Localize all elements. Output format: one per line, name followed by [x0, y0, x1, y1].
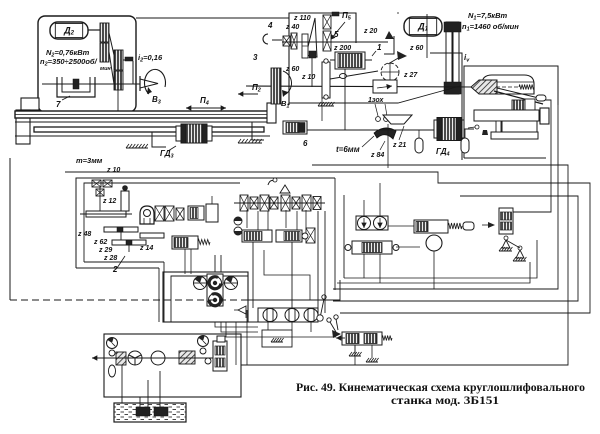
row shafts vertical — [246, 210, 248, 228]
feed shaft horizontal — [307, 129, 437, 131]
gear z14 bar — [140, 233, 164, 238]
cone pulley — [306, 18, 317, 57]
wheel head frame — [464, 66, 558, 158]
valve drops to pumpbox — [184, 249, 186, 274]
main shaft I — [282, 41, 388, 43]
gear z62 bar — [104, 227, 138, 232]
wire from pumpbox right — [248, 280, 340, 300]
wire W4b — [333, 105, 558, 289]
machine outline left — [9, 158, 11, 300]
spindle shaft to wheel — [246, 86, 474, 87]
small gears z110/z40 — [283, 36, 290, 46]
vertical shaft down from speedbox — [344, 69, 346, 130]
wire pulley to table — [117, 90, 119, 111]
svg-text:2: 2 — [112, 265, 118, 274]
hatched valve with spring — [172, 236, 198, 249]
svg-text:n1=1460 об/мин: n1=1460 об/мин — [462, 22, 519, 33]
svg-text:z 12: z 12 — [102, 198, 116, 205]
frame feed gearbox outer — [76, 178, 335, 268]
svg-text:4: 4 — [267, 21, 273, 30]
verticals to bottom bus — [246, 310, 248, 365]
table support bracket left — [152, 132, 166, 147]
motor D1 — [404, 17, 442, 36]
rotation arrow B3 — [144, 69, 165, 94]
small flask — [482, 130, 488, 135]
pilot link wires — [388, 225, 414, 227]
svg-text:z 62: z 62 — [93, 239, 107, 246]
lever with ball — [320, 299, 324, 318]
svg-text:z 20: z 20 — [363, 28, 377, 35]
table rail line — [15, 121, 272, 123]
heat exchanger hatched — [179, 351, 195, 364]
tank with oil — [114, 403, 186, 422]
dark fleck P5 — [332, 12, 339, 16]
svg-text:z 200: z 200 — [333, 45, 351, 52]
drain box below — [262, 330, 292, 347]
svg-text:3: 3 — [253, 53, 258, 62]
circle element — [151, 351, 165, 365]
svg-text:z 27: z 27 — [403, 72, 418, 79]
pump circle 3lobe — [128, 351, 142, 365]
svg-text:мин: мин — [100, 66, 111, 72]
svg-text:z 110: z 110 — [293, 15, 311, 22]
small circle valve — [205, 358, 211, 364]
svg-text:5: 5 — [334, 30, 339, 39]
pipe line main — [108, 357, 213, 359]
wires valve cluster to cylinders — [264, 250, 310, 300]
svg-text:z 60: z 60 — [285, 66, 299, 73]
svg-text:Рис. 49. Кинематическая схема: Рис. 49. Кинематическая схема круглошлиф… — [296, 382, 585, 394]
filter-valve assembly — [213, 341, 227, 371]
worm z84 — [374, 128, 396, 139]
pilot levers valve — [327, 318, 331, 322]
base plates — [474, 110, 539, 121]
relief oval — [109, 365, 116, 377]
cylinder barrels row frame — [258, 308, 318, 322]
frame pump box — [163, 272, 248, 322]
hydraulic cylinder GD3 — [176, 126, 212, 141]
label GD3 — [168, 146, 176, 151]
wire big loop W1 — [241, 165, 568, 365]
cross slide block — [512, 100, 525, 110]
valve bottom drain to bus — [354, 345, 356, 365]
clutch roller 1 — [335, 52, 365, 69]
ratchet box 130x — [373, 80, 397, 93]
lever z20 flag — [384, 36, 394, 54]
pillar — [496, 121, 501, 132]
dashed wheel z27 — [381, 63, 399, 81]
pump vane bottom — [209, 294, 222, 307]
right pair of pilot circles — [356, 216, 388, 230]
pulley B1 — [271, 68, 281, 104]
wire W2 — [65, 172, 590, 313]
table left end block — [21, 98, 39, 110]
svg-text:m=3мм: m=3мм — [76, 156, 103, 165]
bus bottom horizontal — [163, 321, 258, 323]
svg-text:станка мод. 3Б151: станка мод. 3Б151 — [391, 395, 499, 407]
svg-text:z 21: z 21 — [392, 142, 406, 149]
piston rod line — [15, 135, 270, 137]
roller z40 — [302, 34, 308, 58]
wheel spindle chuck — [471, 80, 497, 94]
funnel drain line — [387, 124, 389, 168]
gauge left — [194, 277, 207, 290]
svg-text:z 29: z 29 — [98, 247, 112, 254]
crank 4 — [272, 39, 282, 41]
pilot valve with knob top — [268, 181, 274, 186]
tap symbol — [238, 306, 246, 314]
knob circle — [475, 125, 479, 129]
frame drop to bus — [158, 268, 160, 322]
table upper rail — [15, 111, 272, 118]
spool valves row — [242, 230, 272, 242]
dash axis line — [10, 299, 250, 301]
vertical valve right — [499, 208, 513, 234]
svg-text:z 14: z 14 — [139, 245, 153, 252]
table support bracket right — [252, 122, 264, 140]
workpiece bracket 7 — [57, 77, 95, 97]
svg-text:t=6мм: t=6мм — [336, 145, 360, 154]
drive dog pin — [123, 59, 131, 61]
wire W3 — [333, 196, 578, 301]
pilot drains — [363, 254, 365, 278]
pump vane top — [207, 274, 223, 306]
workpiece spindle shaft — [42, 83, 140, 85]
grinding wheel guard — [482, 75, 534, 94]
funnel z21 — [383, 115, 412, 124]
frame oil station — [104, 334, 241, 397]
svg-text:z 60: z 60 — [409, 45, 423, 52]
frame speed box — [289, 13, 356, 105]
gear z28 bar — [112, 240, 146, 245]
dark gear z10-60 — [309, 51, 316, 58]
frame workhead drive box — [38, 16, 136, 112]
svg-text:6: 6 — [303, 139, 308, 148]
motor D2 — [50, 22, 88, 39]
wire row y283 — [337, 262, 530, 283]
barrel 3 — [304, 309, 318, 322]
tank pipes — [139, 397, 141, 407]
barrel 1 — [263, 309, 277, 322]
rod foot — [318, 102, 334, 106]
plunger with knob — [121, 191, 129, 211]
valve drains — [354, 345, 356, 352]
svg-text:z 10: z 10 — [106, 167, 120, 174]
workpiece center cone — [140, 79, 158, 88]
table right end cap — [267, 103, 276, 123]
ring below dashpot — [426, 235, 442, 251]
barrel 2 — [285, 309, 299, 322]
directional valve right — [352, 241, 392, 254]
verticals from valves — [334, 178, 336, 290]
damper capsule left — [415, 138, 423, 153]
label 7 — [62, 96, 70, 100]
wire top link — [136, 17, 289, 19]
link rod — [322, 62, 330, 98]
filter hatched — [116, 352, 126, 365]
svg-text:z 84: z 84 — [370, 152, 384, 159]
horizontal gear z48 — [86, 211, 126, 217]
gear stack stem down — [321, 97, 323, 121]
gear stem to shaft — [311, 58, 313, 87]
wire motor to pulley — [88, 29, 101, 31]
svg-text:1: 1 — [377, 43, 382, 52]
gauge with valve — [107, 338, 118, 349]
wires speedbox bottom — [289, 86, 460, 103]
belt diagonal — [330, 71, 378, 79]
svg-text:z 10: z 10 — [301, 74, 315, 81]
ground hatch right — [238, 139, 262, 143]
belt drive iv — [446, 22, 452, 94]
z27 stem — [389, 81, 391, 87]
wheel head frame — [430, 53, 462, 160]
suction pumps in tank — [136, 407, 150, 416]
table lower rail — [34, 127, 264, 132]
motor GD4 — [434, 120, 464, 138]
dashpot cylinder — [414, 220, 448, 233]
frame feed gearbox inner — [84, 183, 240, 262]
link lines — [193, 282, 207, 284]
piston valve small — [206, 204, 218, 222]
pulley stack P1 — [100, 23, 109, 42]
pulley stack P2 — [114, 50, 123, 70]
ground hatch left — [126, 144, 148, 148]
svg-text:z 40: z 40 — [285, 24, 299, 31]
svg-text:n2=350÷2500об/: n2=350÷2500об/ — [40, 57, 98, 68]
linkage triangles — [502, 240, 510, 248]
wire right frame top — [426, 14, 428, 58]
frame gearbox bottom — [76, 267, 159, 269]
damper capsule right — [461, 138, 469, 153]
flag z60 — [397, 51, 407, 60]
swing lever bell — [140, 206, 154, 224]
diagonal lever — [494, 91, 543, 104]
svg-text:z 48: z 48 — [77, 231, 91, 238]
wire W4a — [513, 100, 551, 212]
gauge right — [225, 277, 238, 290]
outlet arrow left — [92, 355, 108, 360]
gear stack 5 — [323, 15, 331, 29]
barrel connectors — [267, 322, 269, 330]
B1 arc arrow — [283, 71, 292, 95]
small flag left — [488, 222, 495, 228]
directional valve bottom — [342, 332, 382, 345]
svg-text:z 28: z 28 — [103, 255, 117, 262]
gear pair mid — [155, 206, 164, 221]
gear row cluster (selector) — [240, 195, 248, 211]
frame D1 box — [397, 12, 399, 14]
belt i2 — [109, 33, 114, 55]
svg-text:7: 7 — [56, 100, 61, 109]
valve 6 — [283, 121, 307, 134]
circles small row — [234, 217, 242, 225]
wire row y278 — [344, 240, 537, 278]
bevel pair top — [92, 180, 101, 187]
valve right of gears — [188, 206, 204, 220]
spring zigzag on wheel — [519, 85, 534, 90]
gauge 2 — [198, 336, 209, 347]
pawl circles — [376, 117, 381, 122]
